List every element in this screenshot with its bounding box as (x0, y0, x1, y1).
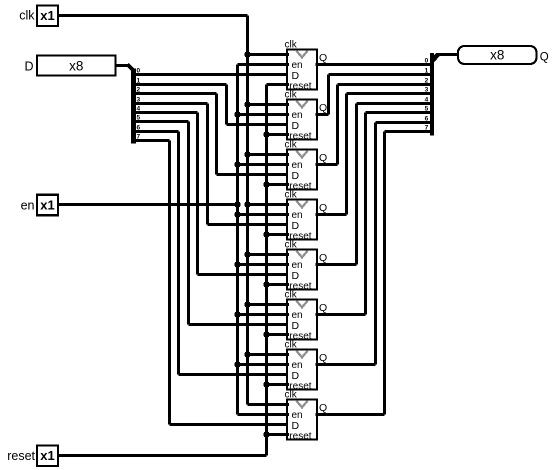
wire D7 to U8.D (170, 423, 290, 426)
wire Q6 horizontal from U6 (316, 313, 366, 316)
wire Q5 to merger input 4 (357, 102, 430, 105)
wire reset stub to U2 (267, 133, 290, 136)
wire en stub to U8 (238, 413, 290, 416)
wire clk trunk vertical (246, 16, 249, 405)
wire D input horizontal (116, 64, 129, 67)
wire D0 to U1.D (136, 73, 289, 76)
junction clk trunk at U4 (244, 201, 250, 207)
svg-text:clk: clk (285, 139, 298, 150)
wire D6 vertical (177, 132, 180, 375)
svg-text:clk: clk (285, 189, 298, 200)
svg-text:Q: Q (319, 302, 327, 314)
wire en input horizontal (58, 203, 238, 206)
svg-text:0: 0 (425, 58, 429, 65)
svg-text:reset: reset (289, 431, 311, 442)
svg-text:reset: reset (7, 449, 35, 463)
junction clk trunk at U2 (244, 101, 250, 107)
junction clk trunk at U6 (244, 301, 250, 307)
wire reset stub to U8 (267, 433, 290, 436)
junction en trunk y=204.5 (234, 201, 240, 207)
wire D1 horizontal from splitter (136, 83, 227, 86)
svg-text:x8: x8 (69, 58, 83, 73)
junction en trunk y=114.5 (234, 111, 240, 117)
wire Q7 to merger input 6 (376, 121, 430, 124)
wire merger output diagonal (432, 54, 438, 61)
wire reset stub to U4 (267, 233, 290, 236)
svg-text:x1: x1 (40, 197, 54, 212)
wire D2 to U3.D (217, 173, 290, 176)
svg-text:6: 6 (425, 116, 429, 123)
wire D4 vertical (196, 113, 199, 275)
wire reset stub to U5 (267, 283, 290, 286)
wire en stub to U7 (238, 363, 290, 366)
wire Q5 horizontal from U5 (316, 263, 357, 266)
wire reset stub to U3 (267, 183, 290, 186)
svg-text:clk: clk (285, 289, 298, 300)
svg-text:x8: x8 (490, 47, 504, 62)
wire clk stub to U3 (248, 153, 290, 156)
wire clk stub to U7 (248, 353, 290, 356)
wire D5 vertical (187, 122, 190, 325)
wire D3 to U4.D (208, 223, 290, 226)
wire clk stub to U6 (248, 303, 290, 306)
wire Q5 vertical (355, 104, 358, 265)
junction reset trunk at U8 (263, 431, 269, 437)
wire en stub to U2 (238, 113, 290, 116)
svg-text:clk: clk (285, 339, 298, 350)
wire clk input horizontal (58, 14, 248, 17)
svg-text:clk: clk (285, 39, 298, 50)
wire reset stub to U6 (267, 333, 290, 336)
wire Q8 to merger input 7 (385, 130, 430, 133)
wire en stub to U4 (238, 213, 290, 216)
D flip-flop U8 body (287, 400, 317, 440)
wire Q3 vertical (336, 85, 339, 165)
splitter S1 bar (1x8 fanout) (131, 68, 136, 143)
wire D5 horizontal from splitter (136, 120, 189, 123)
wire reset input horizontal (58, 454, 267, 457)
svg-text:x1: x1 (40, 8, 54, 23)
wire clk stub to U8 (248, 403, 290, 406)
wire D7 vertical (168, 141, 171, 425)
junction clk trunk at U5 (244, 251, 250, 257)
wire Q3 to merger input 2 (338, 83, 430, 86)
svg-text:clk: clk (285, 89, 298, 100)
D flip-flop U3 body (287, 150, 317, 190)
wire Q6 to merger input 5 (366, 111, 430, 114)
wire D2 horizontal from splitter (136, 92, 217, 95)
wire D6 to U7.D (179, 373, 290, 376)
junction reset trunk at U7 (263, 381, 269, 387)
wire Q1 to merger input 0 (316, 63, 430, 66)
wire en stub to U1 (238, 63, 290, 66)
svg-text:en: en (21, 199, 35, 213)
D flip-flop U4 body (287, 200, 317, 240)
wire Q4 to merger input 3 (347, 92, 430, 95)
D flip-flop U7 body (287, 350, 317, 390)
svg-text:Q: Q (319, 352, 327, 364)
svg-text:Q: Q (319, 202, 327, 214)
wire clk stub to U2 (248, 103, 290, 106)
wire clk stub to U4 (248, 203, 290, 206)
svg-text:2: 2 (425, 78, 429, 85)
svg-text:7: 7 (425, 125, 429, 132)
wire reset stub to U1 (267, 83, 290, 86)
junction reset trunk at U6 (263, 331, 269, 337)
D flip-flop U2 body (287, 100, 317, 140)
wire Q7 horizontal from U7 (316, 363, 376, 366)
svg-text:Q: Q (319, 252, 327, 264)
junction en trunk y=364.5 (234, 361, 240, 367)
wire Q6 vertical (364, 113, 367, 315)
wire clk stub to U1 (248, 53, 290, 56)
D flip-flop U5 body (287, 250, 317, 290)
merger M1 bar (8x1) (430, 53, 434, 136)
wire Q8 horizontal from U8 (316, 413, 385, 416)
D flip-flop U6 body (287, 300, 317, 340)
D flip-flop U1 body (287, 50, 317, 90)
wire Q2 to merger input 1 (329, 73, 430, 76)
svg-text:clk: clk (285, 239, 298, 250)
junction reset trunk at U3 (263, 181, 269, 187)
wire D splitter input diagonal (127, 65, 134, 72)
wire Q4 vertical (345, 94, 348, 215)
wire reset stub to U7 (267, 383, 290, 386)
junction en trunk y=164.5 (234, 161, 240, 167)
svg-text:D: D (24, 60, 33, 74)
wire en trunk vertical (236, 65, 239, 415)
svg-text:Q: Q (319, 152, 327, 164)
svg-text:4: 4 (425, 97, 429, 104)
svg-text:clk: clk (285, 389, 298, 400)
wire reset trunk vertical (265, 85, 268, 456)
wire merger output to Q port (437, 53, 459, 56)
junction en trunk y=264.5 (234, 261, 240, 267)
wire D1 to U2.D (227, 123, 290, 126)
svg-text:Q: Q (319, 102, 327, 114)
wire clk stub to U5 (248, 253, 290, 256)
svg-text:Q: Q (319, 402, 327, 414)
wire D3 horizontal from splitter (136, 102, 208, 105)
wire en stub to U6 (238, 313, 290, 316)
wire en stub to U5 (238, 263, 290, 266)
junction clk trunk at U7 (244, 351, 250, 357)
wire D3 vertical (206, 104, 209, 225)
junction reset trunk at U2 (263, 131, 269, 137)
wire Q2 horizontal from U2 (316, 113, 329, 116)
svg-text:5: 5 (425, 106, 429, 113)
wire D2 vertical (215, 94, 218, 175)
wire D1 vertical (225, 85, 228, 125)
wire Q4 horizontal from U4 (316, 213, 347, 216)
junction clk trunk at U1 (244, 51, 250, 57)
wire D4 to U5.D (198, 273, 290, 276)
junction reset trunk at U4 (263, 231, 269, 237)
svg-text:3: 3 (425, 87, 429, 94)
output port Q (8-bit) (458, 46, 537, 64)
wire D4 horizontal from splitter (136, 111, 198, 114)
svg-text:1: 1 (425, 68, 429, 75)
wire D6 horizontal from splitter (136, 130, 179, 133)
svg-text:clk: clk (19, 9, 35, 23)
wire Q3 horizontal from U3 (316, 163, 338, 166)
wire D5 to U6.D (189, 323, 290, 326)
svg-text:x1: x1 (40, 448, 54, 463)
wire en stub to U3 (238, 163, 290, 166)
svg-text:Q: Q (540, 51, 549, 63)
junction en trunk y=214.5 (234, 211, 240, 217)
junction reset trunk at U5 (263, 281, 269, 287)
svg-text:Q: Q (319, 52, 327, 64)
wire Q8 vertical (383, 132, 386, 415)
junction clk trunk at U3 (244, 151, 250, 157)
wire Q7 vertical (374, 123, 377, 365)
wire D7 horizontal from splitter (136, 139, 170, 142)
wire Q2 vertical (327, 75, 330, 115)
junction en trunk y=314.5 (234, 311, 240, 317)
